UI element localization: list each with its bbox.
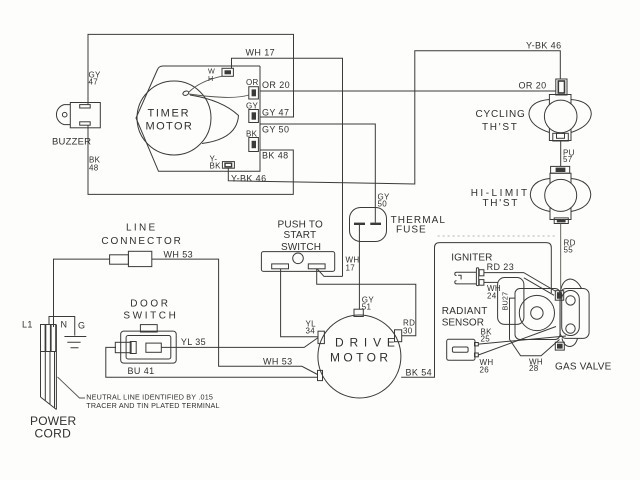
timer cam eye xyxy=(182,90,189,96)
wire switch to WH-17 xyxy=(317,269,342,276)
svg-text:FUSE: FUSE xyxy=(396,224,427,235)
svg-text:H: H xyxy=(208,74,213,83)
buzzer xyxy=(56,103,100,128)
wire GY-51 fuse to drive motor xyxy=(358,242,360,309)
svg-text:L1: L1 xyxy=(22,320,33,330)
radiant sensor xyxy=(447,339,479,360)
svg-text:TH'ST: TH'ST xyxy=(482,122,519,133)
svg-text:MOTOR: MOTOR xyxy=(146,121,194,133)
svg-text:57: 57 xyxy=(563,155,573,164)
timer contact BK xyxy=(246,130,258,152)
svg-text:CONNECTOR: CONNECTOR xyxy=(101,236,182,247)
door switch xyxy=(115,325,176,364)
svg-text:RD 23: RD 23 xyxy=(487,262,515,272)
svg-text:N: N xyxy=(61,320,68,330)
gas valve coil plate xyxy=(498,278,560,340)
svg-text:PUSH TO: PUSH TO xyxy=(278,220,324,231)
svg-text:26: 26 xyxy=(480,366,490,375)
wire start-circuit to motor RD-30 xyxy=(317,269,416,336)
svg-text:GY 50: GY 50 xyxy=(262,125,289,135)
svg-text:RADIANT: RADIANT xyxy=(442,306,488,317)
svg-text:BU 41: BU 41 xyxy=(128,366,155,376)
ground xyxy=(64,337,86,348)
hi-limit thermostat xyxy=(530,166,591,223)
svg-text:OR: OR xyxy=(246,78,259,87)
neutral leader line xyxy=(58,377,86,398)
svg-text:SENSOR: SENSOR xyxy=(442,318,484,329)
timer contact GY xyxy=(246,102,259,123)
svg-text:34: 34 xyxy=(306,327,316,336)
svg-text:Y-BK 46: Y-BK 46 xyxy=(231,174,267,184)
wire BK-54 motor to gas valve xyxy=(401,243,551,378)
wire PU-57 cycling to hi-limit xyxy=(560,141,562,166)
svg-text:TIMER: TIMER xyxy=(148,108,191,120)
wire YL-35 door switch to motor xyxy=(161,338,318,348)
drive motor xyxy=(318,309,402,398)
svg-text:Y-BK 46: Y-BK 46 xyxy=(526,41,562,51)
svg-text:TRACER AND TIN PLATED TERMINAL: TRACER AND TIN PLATED TERMINAL xyxy=(86,401,219,410)
wire neutral line-connector to power cord xyxy=(54,259,110,327)
timer motor circle xyxy=(137,81,211,155)
svg-text:WH 17: WH 17 xyxy=(246,48,276,58)
svg-text:OR 20: OR 20 xyxy=(519,81,547,91)
svg-text:BK 48: BK 48 xyxy=(262,151,289,161)
svg-text:SWITCH: SWITCH xyxy=(123,311,178,322)
timer contact Y-BK xyxy=(222,162,234,169)
svg-text:50: 50 xyxy=(378,200,388,209)
svg-text:BU27: BU27 xyxy=(501,292,510,311)
push-to-start switch xyxy=(261,252,334,272)
wire OR-20 timer to cycling thermostat xyxy=(260,90,556,92)
timer contact W-H xyxy=(222,68,233,76)
svg-text:CORD: CORD xyxy=(35,427,72,441)
svg-text:START: START xyxy=(284,230,317,241)
harness dotted line xyxy=(438,235,555,237)
wire Y-BK-46 timer to cycling thermostat xyxy=(228,51,560,184)
wire BK-48 buzzer-to-timer loop xyxy=(88,125,293,194)
svg-text:MOTOR: MOTOR xyxy=(330,351,391,365)
svg-text:OR 20: OR 20 xyxy=(262,80,290,90)
wire WH-53 line connector to drive motor xyxy=(152,259,318,374)
wire RD-23 igniter to gas valve xyxy=(484,273,556,292)
wire WH-24 igniter to gas valve coil xyxy=(484,281,498,283)
svg-text:25: 25 xyxy=(481,335,491,344)
svg-text:GY 47: GY 47 xyxy=(262,108,289,118)
wire GY-47 buzzer-to-timer loop xyxy=(88,34,294,117)
svg-text:28: 28 xyxy=(529,364,539,373)
timer wiper curve to OR contact xyxy=(189,94,249,97)
svg-text:BUZZER: BUZZER xyxy=(52,137,91,148)
wire WH-17 timer to push-to-start xyxy=(232,58,343,276)
wire RD-55 hi-limit to gas valve xyxy=(560,224,562,291)
wire BU-41 door switch to motor xyxy=(106,347,318,377)
wire WH-26 sensor to gas valve xyxy=(478,327,556,356)
svg-text:30: 30 xyxy=(403,327,413,336)
svg-text:WH 53: WH 53 xyxy=(263,357,293,367)
thermal fuse xyxy=(350,208,387,243)
gas valve bracket xyxy=(560,279,589,347)
svg-text:LINE: LINE xyxy=(126,223,157,234)
svg-text:BK: BK xyxy=(210,161,222,170)
timer wiper curve to W-H contact xyxy=(189,76,222,92)
cycling thermostat xyxy=(529,79,591,141)
wire push-to-start to motor YL-34 xyxy=(281,269,319,337)
svg-text:TH'ST: TH'ST xyxy=(483,198,520,209)
svg-text:17: 17 xyxy=(346,264,356,273)
power cord xyxy=(41,325,57,410)
timer motor cam lobe xyxy=(190,95,239,144)
gas valve funnel xyxy=(510,340,560,356)
wire BK-25 sensor to gas valve xyxy=(478,336,566,344)
svg-text:DOOR: DOOR xyxy=(130,299,170,310)
svg-text:G: G xyxy=(78,321,85,331)
timer contact OR xyxy=(246,78,259,99)
gas valve top terminal xyxy=(555,291,563,301)
line connector xyxy=(110,251,152,266)
wire GY-50 timer to thermal fuse xyxy=(260,124,375,223)
wire neutral-ground bracket xyxy=(49,317,75,336)
svg-text:48: 48 xyxy=(89,164,99,173)
svg-text:47: 47 xyxy=(89,78,99,87)
svg-text:24: 24 xyxy=(487,292,497,301)
svg-text:55: 55 xyxy=(564,246,574,255)
svg-text:GAS VALVE: GAS VALVE xyxy=(555,362,612,373)
gas valve bottom terminal xyxy=(555,342,564,350)
svg-text:YL 35: YL 35 xyxy=(181,337,206,347)
svg-text:BK 54: BK 54 xyxy=(406,368,433,378)
igniter xyxy=(455,268,484,286)
svg-text:WH 53: WH 53 xyxy=(164,250,194,260)
svg-text:DRIVE: DRIVE xyxy=(335,336,401,350)
svg-text:CYCLING: CYCLING xyxy=(476,109,526,120)
timer motor outline polygon xyxy=(136,66,260,171)
